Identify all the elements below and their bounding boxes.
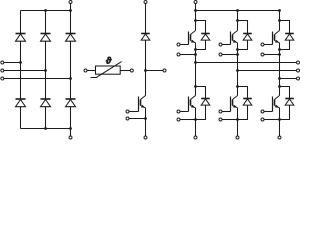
junction leg1 upper diode return: [194, 48, 197, 51]
terminal Q4 gate: [177, 110, 180, 113]
wire leg3 upper diode branch: [280, 21, 290, 50]
junction leg1 aux emitter: [194, 53, 197, 56]
wire bridge leg 3: [70, 11, 72, 129]
junction inverter rail / leg3: [278, 9, 281, 12]
junction leg3 phase node: [278, 77, 281, 80]
wire leg2 upper collector: [237, 11, 239, 31]
thermistor body: [96, 66, 121, 74]
wire thermistor left lead: [87, 70, 96, 72]
junction leg2 phase node: [236, 69, 239, 72]
terminal chopper aux emitter: [126, 117, 129, 120]
junction leg3 aux emitter: [278, 53, 281, 56]
terminal phase output 2: [297, 69, 300, 72]
junction leg1 upper diode tap: [194, 19, 197, 22]
thermistor strike line: [91, 62, 122, 78]
junction leg2 upper diode tap: [236, 19, 239, 22]
terminal phase output 3: [297, 77, 300, 80]
wire leg3 midpoint: [279, 43, 281, 96]
wire bridge leg 1: [20, 11, 22, 129]
terminal Q5 gate: [219, 110, 222, 113]
terminal Q3 gate: [261, 43, 264, 46]
terminal Q2 aux emitter: [219, 53, 222, 56]
terminal leg1 emitter (DC-): [194, 136, 197, 139]
transistor Q7 (brake chopper IGBT): [141, 96, 146, 100]
terminal chopper output: [163, 69, 166, 72]
terminal thermistor right: [130, 69, 133, 72]
wire leg2 lower diode branch: [238, 87, 248, 120]
junction leg2 lower aux emitter / diode return: [236, 118, 239, 121]
transistor Q1 (upper IGBT): [191, 31, 196, 35]
diode D7 (brake): [141, 33, 150, 35]
junction leg2 upper diode return: [236, 48, 239, 51]
junction bridge top rail / leg2: [44, 9, 47, 12]
wire AC input L2: [4, 70, 46, 72]
terminal phase output 1: [297, 61, 300, 64]
wire chopper DC+ to IGBT collector: [145, 4, 147, 96]
junction chopper aux emitter: [144, 117, 147, 120]
wire AC input L1: [4, 62, 21, 64]
wire phase output 2: [238, 70, 297, 72]
wire DC+ rail (inverter): [196, 10, 280, 12]
diode D6 (lower): [66, 98, 76, 100]
diode D15 (lower freewheel): [243, 98, 252, 100]
diode D4 (lower): [16, 98, 26, 100]
diode D1 (upper): [16, 33, 26, 35]
wire thermistor right lead: [120, 70, 130, 72]
terminal chopper gate: [126, 110, 129, 113]
terminal DC+ (inverter): [194, 1, 197, 4]
diode D11 (upper freewheel): [201, 33, 210, 35]
wire inverter DC+ stub: [195, 4, 197, 11]
junction bridge top rail / leg3: [69, 9, 72, 12]
transistor Q3 (upper IGBT): [275, 31, 280, 35]
diode D12 (upper freewheel): [243, 33, 252, 35]
terminal DC+ (bridge): [69, 1, 72, 4]
wire leg3 lower diode branch: [280, 87, 290, 120]
wire leg2 lower emitter: [237, 108, 239, 136]
junction bridge bottom rail / leg3: [69, 127, 72, 130]
wire leg2 midpoint: [237, 43, 239, 96]
junction leg1 lower aux emitter / diode return: [194, 118, 197, 121]
terminal AC input L3: [1, 77, 4, 80]
junction leg2 / AC L2: [44, 69, 47, 72]
wire chopper emitter to DC-: [145, 108, 147, 136]
wire leg1 upper collector: [195, 11, 197, 31]
wire AC input L3: [4, 78, 71, 80]
terminal AC input L2: [1, 69, 4, 72]
junction inverter rail / leg2: [236, 9, 239, 12]
wire leg1 upper diode branch: [196, 21, 206, 50]
wire leg3 lower emitter: [279, 108, 281, 136]
terminal Q2 gate: [219, 43, 222, 46]
terminal thermistor left: [84, 69, 87, 72]
wire leg1 lower emitter: [195, 108, 197, 136]
wire DC- rail (bridge bottom): [21, 128, 71, 130]
terminal Q1 gate: [177, 43, 180, 46]
junction chopper output node: [144, 69, 147, 72]
svg-text:ϑ: ϑ: [106, 56, 112, 66]
transistor Q5 (lower IGBT): [233, 96, 238, 100]
junction leg3 lower diode tap: [278, 85, 281, 88]
diode D16 (lower freewheel): [285, 98, 294, 100]
terminal leg2 emitter (DC-): [236, 136, 239, 139]
terminal Q6 aux emitter: [261, 118, 264, 121]
wire leg3 upper collector: [279, 11, 281, 31]
junction leg3 upper diode return: [278, 48, 281, 51]
terminal leg3 emitter (DC-): [278, 136, 281, 139]
terminal Q4 aux emitter: [177, 118, 180, 121]
diode D5 (lower): [41, 98, 51, 100]
diode D13 (upper freewheel): [285, 33, 294, 35]
wire phase output 3: [280, 78, 297, 80]
terminal Q6 gate: [261, 110, 264, 113]
transistor Q6 (lower IGBT): [275, 96, 280, 100]
terminal Q3 aux emitter: [261, 53, 264, 56]
terminal AC input L1: [1, 61, 4, 64]
junction leg2 lower diode tap: [236, 85, 239, 88]
terminal Q5 aux emitter: [219, 118, 222, 121]
wire leg1 lower diode branch: [196, 87, 206, 120]
junction bridge bottom rail / leg2: [44, 127, 47, 130]
junction leg2 aux emitter: [236, 53, 239, 56]
junction leg1 / AC L1: [19, 61, 22, 64]
terminal DC- (bridge): [69, 136, 72, 139]
wire leg1 midpoint: [195, 43, 197, 96]
junction leg1 phase node: [194, 61, 197, 64]
wire phase output 1: [196, 62, 297, 64]
wire leg2 upper diode branch: [238, 21, 248, 50]
terminal chopper DC-: [144, 136, 147, 139]
junction leg3 upper diode tap: [278, 19, 281, 22]
junction inverter rail / leg1: [194, 9, 197, 12]
terminal Q1 aux emitter: [177, 53, 180, 56]
wire DC+ rail (bridge top): [21, 10, 71, 12]
terminal chopper DC+: [144, 1, 147, 4]
wire chopper output: [146, 70, 164, 72]
transistor Q4 (lower IGBT): [191, 96, 196, 100]
junction leg3 / AC L3: [69, 77, 72, 80]
junction leg3 lower aux emitter / diode return: [278, 118, 281, 121]
wire DC+ stub: [70, 4, 72, 11]
junction leg1 lower diode tap: [194, 85, 197, 88]
transistor Q2 (upper IGBT): [233, 31, 238, 35]
diode D14 (lower freewheel): [201, 98, 210, 100]
diode D2 (upper): [41, 33, 51, 35]
wire bridge leg 2: [45, 11, 47, 129]
wire DC- stub: [70, 129, 72, 137]
diode D3 (upper): [66, 33, 76, 35]
